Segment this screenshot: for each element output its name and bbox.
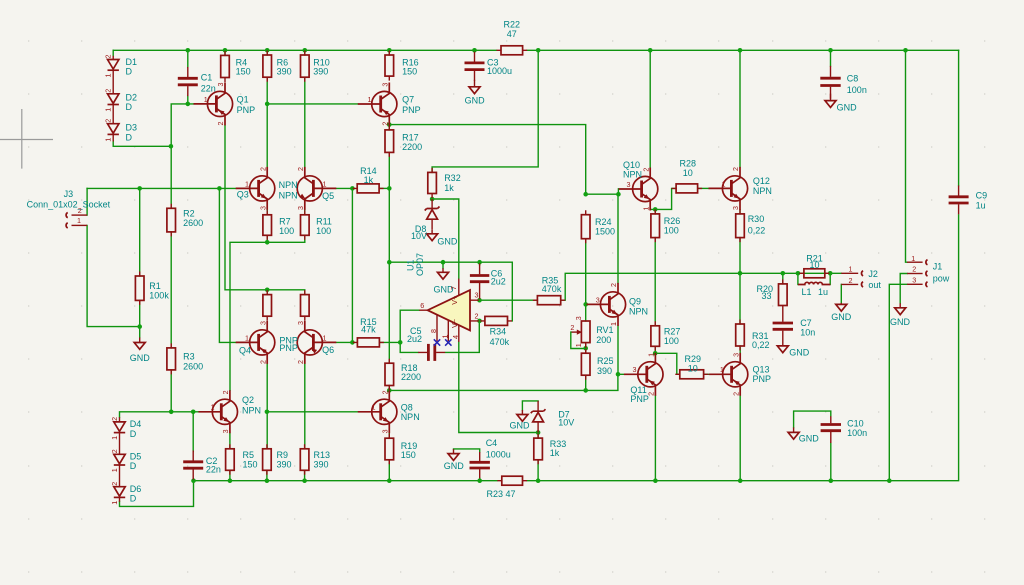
wire GND rail (op-amp)	[389, 262, 512, 321]
connector J1 pin 1	[907, 261, 923, 263]
svg-text:D6: D6	[130, 484, 142, 494]
junction input drop	[217, 186, 222, 191]
resistor R7 100	[266, 210, 268, 240]
svg-text:2: 2	[731, 392, 740, 396]
svg-text:3: 3	[731, 353, 740, 357]
junction C2/Q2-base	[191, 410, 196, 415]
junction C3/+V	[472, 48, 477, 53]
svg-text:R28: R28	[680, 159, 697, 169]
connector J3 pin 1	[72, 224, 88, 226]
svg-text:D2: D2	[126, 93, 138, 103]
svg-text:J2: J2	[868, 269, 878, 279]
svg-text:D3: D3	[126, 123, 138, 133]
svg-text:2: 2	[570, 323, 574, 332]
svg-text:2: 2	[110, 482, 119, 486]
resistor R35 470k	[533, 299, 565, 301]
wire pin6 wire	[400, 310, 419, 352]
svg-text:150: 150	[236, 66, 251, 76]
svg-text:1: 1	[245, 179, 249, 188]
svg-text:1k: 1k	[444, 183, 454, 193]
resistor R14 1k	[353, 187, 384, 189]
wire GND stem on rail	[442, 262, 444, 268]
svg-text:390: 390	[314, 459, 329, 469]
junction Q6-base/R15	[350, 340, 355, 345]
svg-text:R29: R29	[685, 354, 702, 364]
junction R3/Q2-base	[169, 410, 174, 415]
svg-text:7: 7	[449, 286, 458, 290]
svg-text:1: 1	[104, 138, 113, 142]
transistor Q11 PNP	[624, 353, 663, 396]
wire R27 node to R29	[655, 353, 680, 374]
transistor Q13 PNP	[709, 353, 748, 396]
junction R19/-V rail	[387, 478, 392, 483]
resistor R31 0,22	[739, 320, 741, 351]
junction R18/Q8-collector	[387, 388, 392, 393]
svg-text:V−: V−	[450, 319, 459, 328]
wire long rail R18 to Q11 base node	[389, 374, 624, 390]
wire Q8 base	[267, 411, 358, 413]
resistor R24 1500	[585, 210, 587, 243]
junction R30/output-rail	[738, 271, 743, 276]
svg-text:1: 1	[574, 343, 583, 347]
svg-text:3: 3	[912, 276, 916, 285]
transistor Q4 PNP	[236, 321, 275, 364]
svg-text:2: 2	[104, 119, 113, 123]
svg-text:1: 1	[110, 436, 119, 440]
wire R4 top lead	[224, 50, 226, 55]
ground C3	[474, 80, 476, 87]
wire R19 top lead	[388, 433, 390, 438]
svg-text:C7: C7	[800, 318, 812, 328]
wire R10 bottom to Q5 collector	[304, 77, 306, 167]
wire output rail to R31	[739, 273, 741, 324]
junction C4/-V rail	[477, 478, 482, 483]
svg-text:D: D	[126, 102, 133, 112]
svg-text:2: 2	[221, 390, 230, 394]
svg-text:D: D	[130, 494, 137, 504]
wire Q11 emitter top pin	[654, 352, 656, 355]
wire C5 right to pin2	[446, 321, 480, 353]
resistor R18 2200	[388, 359, 390, 390]
svg-text:1: 1	[104, 108, 113, 112]
svg-text:390: 390	[313, 66, 328, 76]
capacitor C3 1000u	[474, 52, 476, 81]
svg-text:R26: R26	[664, 216, 681, 226]
capacitor C9 1u	[958, 186, 960, 215]
svg-text:R7: R7	[279, 216, 291, 226]
wire -V bottom rail left	[194, 480, 498, 482]
svg-text:2200: 2200	[402, 142, 422, 152]
svg-text:GND: GND	[444, 461, 465, 471]
diode D2	[112, 71, 114, 94]
svg-text:33: 33	[761, 291, 771, 301]
ground R1	[139, 338, 141, 343]
wire Q11 emitter drop	[654, 396, 656, 481]
junction Q12/+V	[738, 48, 743, 53]
svg-text:47: 47	[507, 29, 517, 39]
svg-text:6: 6	[420, 301, 424, 310]
svg-text:4: 4	[451, 335, 460, 339]
svg-text:150: 150	[401, 450, 416, 460]
svg-text:1: 1	[110, 468, 119, 472]
wire R25 bottom to long rail	[585, 375, 587, 390]
capacitor C5 2u2	[418, 351, 445, 353]
transistor Q9 NPN	[587, 283, 626, 326]
svg-text:R32: R32	[444, 173, 461, 183]
transistor Q6 PNP	[297, 321, 336, 364]
wire pin3 line to R35	[480, 299, 538, 301]
svg-text:10: 10	[809, 260, 819, 270]
wire R6 bottom to junction	[266, 77, 268, 104]
junction C2/-V rail	[191, 478, 196, 483]
svg-text:PNP: PNP	[279, 343, 298, 353]
svg-text:1: 1	[211, 403, 215, 412]
svg-text:R30: R30	[748, 214, 765, 224]
connector J2 pin 1	[841, 272, 858, 274]
wire Q8 collector	[388, 390, 390, 395]
svg-text:D: D	[126, 67, 133, 77]
wire R2 top lead	[170, 146, 172, 208]
wire Q10 collector riser	[649, 50, 651, 167]
wire R1 bottom to GND	[139, 300, 141, 337]
wire junction to Q3 collector	[266, 104, 268, 167]
wire Q10 emitter junction	[650, 209, 655, 214]
svg-text:2: 2	[296, 360, 305, 364]
wire D3 bottom to junction	[113, 141, 171, 146]
capacitor C6 2u2	[479, 263, 481, 299]
svg-text:2: 2	[216, 122, 225, 126]
wire R17 bottom to R14 node	[388, 152, 390, 188]
junction D7/pin4-wire	[536, 430, 541, 435]
svg-text:470k: 470k	[542, 284, 562, 294]
junction R24-top	[583, 192, 588, 197]
resistor R9 390	[266, 444, 268, 475]
wire C10 bottom	[830, 443, 832, 481]
wire R13 bottom	[304, 470, 306, 480]
wire R3 bottom to Q2 base node	[171, 370, 198, 412]
svg-text:390: 390	[277, 459, 292, 469]
junction Q4-emitter/Q8-base	[265, 410, 270, 415]
svg-text:GND: GND	[831, 312, 852, 322]
svg-text:150: 150	[402, 66, 417, 76]
svg-text:NPN: NPN	[629, 307, 648, 317]
resistor R12 100	[304, 290, 306, 321]
diode D4	[119, 417, 121, 422]
wire Q10 base jog	[617, 189, 619, 194]
svg-text:Q7: Q7	[402, 94, 414, 104]
svg-text:1: 1	[110, 501, 119, 505]
junction R13/-V rail	[302, 478, 307, 483]
svg-text:2: 2	[731, 167, 740, 171]
svg-text:390: 390	[597, 366, 612, 376]
capacitor C1 22n	[187, 67, 189, 96]
svg-text:3: 3	[596, 295, 600, 304]
svg-text:R25: R25	[597, 356, 614, 366]
junction Q10-emitter/R26	[653, 207, 658, 212]
junction R32/D8/pin7	[430, 197, 435, 202]
junction Q7-emitter/R17	[387, 122, 392, 127]
wire R22 right column down	[432, 50, 538, 172]
svg-text:100: 100	[316, 226, 331, 236]
resistor R13 390	[304, 444, 306, 475]
svg-text:Q1: Q1	[237, 94, 249, 104]
svg-text:NPN: NPN	[279, 180, 298, 190]
wire bias node to D4 chain	[120, 412, 172, 417]
sheet origin cross	[0, 109, 53, 169]
wire R26 to R27 column	[654, 238, 656, 326]
no-connect X pin 1	[445, 339, 451, 345]
resistor R4 150	[224, 51, 226, 82]
junction R7/R11 rail	[265, 240, 270, 245]
svg-text:100n: 100n	[847, 85, 867, 95]
junction GND-stem	[441, 260, 446, 265]
wire R5 bottom	[229, 470, 231, 480]
junction R5/-V rail	[228, 478, 233, 483]
svg-text:R22: R22	[504, 20, 521, 30]
resistor R2 2600	[170, 204, 172, 237]
junction R33/-V rail	[536, 478, 541, 483]
svg-text:R24: R24	[595, 217, 612, 227]
junction Q11/-V rail	[653, 478, 658, 483]
junction R10/+V	[303, 48, 308, 53]
wire column R14-node to GND rail	[388, 188, 390, 262]
wire R15 right to pin6 node	[380, 341, 400, 343]
svg-text:D1: D1	[126, 57, 138, 67]
svg-text:0,22: 0,22	[748, 226, 766, 236]
svg-text:1: 1	[245, 333, 249, 342]
wire Q10 emitter to R28	[655, 188, 676, 209]
wire C4 bottom	[479, 478, 481, 481]
svg-text:1: 1	[849, 265, 853, 274]
svg-text:PNP: PNP	[753, 374, 772, 384]
svg-text:1: 1	[77, 216, 81, 225]
svg-text:1: 1	[372, 403, 376, 412]
diode D1	[112, 56, 114, 60]
diode D5	[119, 433, 121, 454]
wire J3 pin1 drop to GND	[87, 225, 140, 326]
svg-text:Q2: Q2	[242, 395, 254, 405]
svg-text:3: 3	[475, 291, 479, 300]
wire D7 anode junction	[537, 433, 539, 439]
svg-text:2: 2	[258, 167, 267, 171]
wire Q5/Q6 coupling column	[351, 188, 353, 342]
resistor R16 150	[388, 51, 390, 81]
svg-text:2: 2	[641, 168, 650, 172]
svg-text:GND: GND	[130, 353, 151, 363]
junction R6/+V	[265, 48, 270, 53]
svg-text:2: 2	[849, 276, 853, 285]
connector J1 pin 2	[907, 273, 923, 275]
resistor R23 47	[497, 480, 527, 482]
transistor Q12 NPN	[709, 167, 748, 210]
svg-text:J3: J3	[64, 189, 74, 199]
svg-text:10: 10	[688, 363, 698, 373]
wire pin4 drop	[459, 342, 538, 433]
svg-text:PNP: PNP	[237, 105, 256, 115]
wire D6 bottom loop	[120, 481, 194, 507]
diode D6	[119, 466, 121, 487]
connector J3 pin 2	[72, 214, 88, 216]
junction Q13/-V rail	[738, 478, 743, 483]
wire Q12 emitter to R30	[739, 210, 741, 214]
wire Q3 emitter to R7	[266, 210, 268, 215]
junction R1-GND/J3-pin1	[137, 324, 142, 329]
svg-text:GND: GND	[799, 433, 820, 443]
svg-text:3: 3	[381, 83, 390, 87]
wire R20 top lead	[782, 273, 784, 284]
junction C6/GND-rail	[477, 260, 482, 265]
svg-text:2600: 2600	[183, 218, 203, 228]
svg-text:1000u: 1000u	[487, 66, 512, 76]
svg-text:1: 1	[609, 322, 618, 326]
diode D3	[112, 105, 114, 124]
svg-text:D: D	[130, 461, 137, 471]
svg-text:1000u: 1000u	[486, 449, 511, 459]
resistor R8 100	[266, 290, 268, 321]
svg-text:2: 2	[258, 360, 267, 364]
svg-text:2: 2	[381, 122, 390, 126]
svg-text:3: 3	[296, 206, 305, 210]
junction R25/long-rail	[583, 388, 588, 393]
capacitor C7 10n	[782, 310, 784, 346]
transistor Q5 NPN	[297, 167, 336, 210]
svg-text:1u: 1u	[818, 287, 828, 297]
wire Q5 emitter to R11	[304, 210, 306, 215]
svg-text:Q3: Q3	[237, 189, 249, 199]
wire R24 top wire	[586, 193, 619, 195]
wire R10 top lead	[304, 50, 306, 55]
svg-text:3: 3	[221, 429, 230, 433]
svg-text:8: 8	[429, 329, 438, 333]
svg-text:2: 2	[475, 311, 479, 320]
wire column GND rail to R18	[388, 262, 390, 363]
svg-text:1: 1	[722, 179, 726, 188]
wire C2 bottom lead	[192, 479, 194, 481]
junction Q10-base	[616, 192, 621, 197]
wire C10 top bend to GND	[794, 411, 831, 427]
junction pin3/C6	[477, 298, 482, 303]
junction C8/+V	[828, 48, 833, 53]
svg-text:3: 3	[258, 206, 267, 210]
svg-text:C8: C8	[847, 74, 859, 84]
svg-text:100: 100	[664, 336, 679, 346]
ground C10	[793, 427, 795, 432]
svg-text:3: 3	[731, 206, 740, 210]
svg-text:pow: pow	[933, 273, 950, 283]
wire R30 bottom to output rail	[739, 238, 741, 274]
wire Q4 emitter to R9	[266, 364, 268, 449]
wire Q7 emitter rail to R24	[389, 125, 585, 195]
junction R4/+V	[223, 48, 228, 53]
resistor R19 150	[388, 434, 390, 465]
junction R16/+V	[387, 48, 392, 53]
svg-text:NPN: NPN	[279, 190, 298, 200]
svg-text:2: 2	[110, 449, 119, 453]
junction Q9-base/RV1	[583, 302, 588, 307]
wire C3 top lead	[474, 50, 476, 52]
wire Q2 emitter to R5	[229, 433, 231, 449]
zener diode D8 10V	[431, 199, 433, 229]
svg-text:D5: D5	[130, 452, 142, 462]
resistor R20 33	[782, 279, 784, 310]
wire R27 bottom junction	[654, 346, 656, 353]
ground D8	[431, 229, 433, 234]
zener diode D7 10V	[537, 401, 539, 433]
svg-text:C1: C1	[201, 72, 213, 82]
wire Q9 collector riser	[617, 194, 619, 283]
svg-text:1k: 1k	[550, 448, 560, 458]
resistor R11 100	[304, 210, 306, 240]
svg-text:1k: 1k	[364, 175, 374, 185]
junction J1-pin3/-V rail	[887, 478, 892, 483]
svg-text:10: 10	[683, 168, 693, 178]
svg-text:2u2: 2u2	[491, 277, 506, 287]
junction D3/R2/Q1-base	[169, 144, 174, 149]
wire R35 right riser to output rail	[561, 273, 841, 300]
svg-text:out: out	[868, 280, 881, 290]
junction Q5-base/R14	[350, 186, 355, 191]
wire Q9 emitter to Q11 base node	[617, 326, 619, 374]
svg-text:GND: GND	[789, 348, 810, 358]
svg-text:10V: 10V	[411, 231, 427, 241]
svg-text:R27: R27	[664, 326, 681, 336]
wire R32 bottom junction to pin7 column	[432, 198, 459, 279]
junction pin2/C5	[477, 319, 482, 324]
svg-text:2: 2	[104, 89, 113, 93]
svg-text:OP07: OP07	[415, 253, 425, 276]
junction C1/Q1-base	[186, 102, 191, 107]
junction R6/Q7-base	[265, 102, 270, 107]
svg-text:470k: 470k	[490, 337, 510, 347]
wire Q7 emitter junction	[388, 125, 390, 129]
svg-text:NPN: NPN	[242, 405, 261, 415]
svg-text:R34: R34	[490, 327, 507, 337]
junction R14/R17	[387, 186, 392, 191]
wire C1 top lead	[187, 50, 189, 67]
junction C1/+V	[186, 48, 191, 53]
capacitor C8 100n	[830, 66, 832, 99]
svg-text:NPN: NPN	[753, 186, 772, 196]
wire J3 pin2 riser	[86, 188, 88, 215]
svg-text:100k: 100k	[149, 291, 169, 301]
wire R14 right to column	[380, 187, 390, 189]
connector J2 pin 2	[841, 283, 858, 285]
junction R9/-V rail	[265, 478, 270, 483]
wire R33 bottom	[537, 460, 539, 481]
svg-text:Q4: Q4	[239, 345, 251, 355]
wire Q1 base vertical	[171, 104, 193, 146]
wire J1 pin3 drop	[889, 284, 907, 480]
svg-text:100: 100	[664, 225, 679, 235]
resistor R30 0,22	[739, 209, 741, 242]
svg-text:GND: GND	[510, 420, 531, 430]
junction R1/input	[137, 186, 142, 191]
transistor Q8 NPN	[358, 390, 397, 433]
wire input line J3 to Q3 base	[87, 187, 236, 189]
junction R20/output-rail	[781, 271, 786, 276]
wire +V top bus	[113, 49, 958, 51]
svg-text:NPN: NPN	[401, 412, 420, 422]
wire Q12 collector riser	[739, 50, 741, 167]
resistor R1 100k	[139, 272, 141, 305]
svg-text:2: 2	[381, 390, 390, 394]
svg-text:D: D	[130, 429, 137, 439]
svg-text:R1: R1	[149, 281, 161, 291]
svg-text:200: 200	[596, 335, 611, 345]
svg-text:1: 1	[104, 74, 113, 78]
svg-text:Q5: Q5	[322, 191, 334, 201]
wire J1 pin2 to GND	[900, 274, 907, 304]
